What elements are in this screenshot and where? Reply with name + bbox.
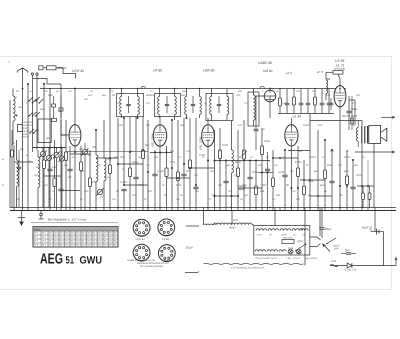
wire v32 [32,98,34,152]
wire h AVC [215,160,271,162]
svg-text:1M: 1M [352,102,355,105]
page edge right [391,57,393,291]
fuse F1 [282,237,294,244]
label UBF80 [203,69,215,73]
labels small scatter [12,90,362,199]
capacitor C20 [254,118,259,150]
svg-text:20p: 20p [353,164,359,167]
wire V5 left [256,96,264,118]
heater box [254,226,310,256]
wire heater drop [203,211,205,225]
inductor heater filaments top [256,229,308,231]
label note box bracket [18,125,23,132]
capacitor C18 [247,161,252,208]
label dropper vertical [370,226,373,233]
wire bottom wavy [204,263,304,264]
svg-text:460kHz: 460kHz [146,94,155,97]
tube V1 UCH42 [61,120,81,146]
label UCH42 top [72,69,84,73]
label lamps [255,257,300,260]
capacitor C31 25uF [319,211,331,238]
svg-text:0,5M: 0,5M [278,171,285,174]
capacitor C15 [181,118,186,208]
wire h 186 [357,185,374,187]
label sockets caption [137,262,169,268]
wire top HT bus [40,88,342,90]
resistor R10 [165,146,168,208]
wire V3 cathode [207,147,209,208]
svg-text:150Ω: 150Ω [295,161,302,164]
svg-text:8μF: 8μF [170,150,175,153]
terminal E [39,211,44,219]
svg-text:20p: 20p [63,164,69,167]
resistor R29 [368,186,371,208]
svg-text:0,5: 0,5 [132,194,136,197]
resistor R22 [296,146,299,208]
wire v310 [309,121,311,208]
svg-text:300Ω: 300Ω [132,161,139,164]
inductor L5 osc [104,120,106,208]
capacitor C29 [329,150,334,208]
svg-text:UL 84: UL 84 [293,115,302,119]
wire ant link [43,68,76,79]
label socket4 [163,259,171,262]
wire V2 cathode [159,146,161,207]
trimmer C7 [81,143,88,208]
svg-text:UABC 80: UABC 80 [258,61,272,65]
resistor R6 [88,150,91,208]
svg-text:10n: 10n [148,190,153,193]
labels component values [45,134,349,187]
svg-text:2pF: 2pF [45,137,51,140]
svg-text:regler: regler [238,187,246,191]
svg-text:0,1μF: 0,1μF [120,181,127,184]
wire v368 [367,160,369,208]
socket V1 UCH42 [133,219,150,236]
label socket2 [162,238,170,241]
svg-text:25: 25 [99,196,103,199]
svg-text:5nF: 5nF [186,170,191,173]
wire v148 [147,120,149,208]
resistor R14 [236,130,239,208]
inductor L12 osc2 [232,121,234,208]
resistor R21 [314,89,317,114]
svg-text:8μF: 8μF [20,148,25,151]
wire v28 [27,84,29,208]
wire midband connectors [14,148,332,197]
svg-text:KW: KW [58,110,63,113]
wire V4 cathode [290,146,292,208]
ground symbol [18,211,25,226]
svg-text:Zt: Zt [7,61,10,64]
svg-text:50k: 50k [145,144,150,147]
wire chassis line upper [10,207,396,209]
svg-text:10k: 10k [276,194,281,197]
svg-text:Bei Netzteilen u. 127 V max: Bei Netzteilen u. 127 V max [48,218,87,222]
capacitor C_t2 [217,96,221,113]
tube V5 magic eye UM80 [264,90,276,102]
wire v375 psu [374,211,376,232]
inductor L2 [17,140,19,208]
svg-text:2,2: 2,2 [271,198,276,201]
svg-text:1M: 1M [290,170,293,173]
inductor heater filaments bottom [255,250,286,252]
wire ant row2 [33,79,61,85]
svg-text:UCH UF/UABC UL/UY: UCH UF/UABC UL/UY [255,257,278,260]
switch S2 wave band [28,112,40,117]
tube V4 UL84 [285,125,298,146]
labels texture scatter [11,90,365,201]
svg-text:300: 300 [16,198,21,201]
capacitor C3 tuning [45,148,52,208]
wire B+ collector [278,113,334,115]
resistor R19 [279,89,282,114]
wire stub r1 [186,225,199,227]
label ant value [57,66,68,70]
svg-text:50p: 50p [180,124,185,127]
svg-text:1M: 1M [48,198,51,201]
resistor R24 fuse [333,68,345,75]
svg-text:5μF: 5μF [345,249,350,252]
capacitor C22 [299,89,304,114]
label UF80 [153,69,162,73]
wire bottom psu [330,265,396,267]
diode D1 [344,263,357,271]
page edge bottom [0,289,392,291]
wire ant down b [36,75,38,98]
terminal socket a2 [36,73,38,75]
wire V1 anode [74,88,76,125]
lamp LP1 [288,249,293,254]
socket V2 UF80 [158,219,175,236]
shield box tuning [38,118,57,142]
wire psu right end [395,258,397,266]
capacitor C6 [67,146,72,208]
capacitor C11 [133,117,138,208]
svg-text:UCH 42: UCH 42 [136,238,146,241]
svg-text:350V: 350V [356,174,362,177]
label output transformer [342,115,358,118]
resistor R3 [53,140,56,208]
resistor R25 [323,140,326,208]
resistor R16 [254,161,257,208]
svg-text:300: 300 [84,98,89,101]
svg-text:100: 100 [116,102,121,105]
svg-text:2 Skl. 7V 0,1A: 2 Skl. 7V 0,1A [285,257,300,260]
svg-text:1MΩ: 1MΩ [264,140,270,143]
resistor R28 [362,186,365,208]
svg-text:50μF: 50μF [362,226,369,230]
label note text block [22,121,34,139]
socket V4 lower [158,245,175,262]
svg-text:50k: 50k [92,146,97,149]
capacitor C27 [329,98,334,110]
inductor L8 IFT2 prim [158,89,160,115]
svg-text:460: 460 [181,94,186,97]
inductor L7 IFT1 sec [138,89,140,119]
wire v124 [123,118,125,185]
wire V6 top [326,72,340,85]
wire V4 anode [290,118,292,125]
resistor R26 [345,150,348,208]
svg-text:UF 80: UF 80 [162,238,170,241]
capacitor C12 [152,150,157,208]
wire V2 anode [159,117,161,125]
wire V5 stem [269,88,271,118]
label UL84 [293,115,302,119]
svg-text:1kV: 1kV [334,248,339,251]
svg-text:10n: 10n [44,90,49,93]
wire v383 psu [383,232,385,266]
svg-text:8μF: 8μF [314,170,319,173]
wire speaker arrow top [381,116,395,118]
wire stub r2 [185,272,199,273]
svg-text:10n: 10n [318,124,323,127]
transformer T3 det box [248,92,259,126]
wire heater box up1 [274,211,276,226]
svg-text:12p: 12p [52,166,57,169]
svg-text:GWU: GWU [80,254,103,266]
resistor R13 [218,128,221,208]
wire speaker top feed [310,114,362,127]
svg-text:Netz-Sich.: Netz-Sich. [283,237,293,240]
svg-text:10 μF: 10 μF [186,246,194,250]
wire v37 [36,98,38,150]
label title 51 [66,254,75,266]
svg-text:der Lötseite gesehen: der Lötseite gesehen [140,265,164,268]
capacitor C25 [327,89,332,114]
resistor R15 volume [242,120,247,208]
svg-text:300: 300 [84,190,89,193]
capacitor C26 [282,150,287,208]
svg-text:300: 300 [298,150,303,153]
inductor L6 IFT1 prim [120,89,122,119]
wire V1 cathode [74,146,76,208]
svg-text:Röhre: Röhre [34,228,41,231]
label UM80 [263,69,273,73]
capacitor C1 ant [39,66,43,70]
wire v10 left [2,100,10,208]
svg-text:2n: 2n [261,128,265,131]
inductor L10 IFT3 prim [185,89,187,119]
svg-text:105V: 105V [310,156,316,159]
svg-text:Type 220V/2: Type 220V/2 [305,257,318,260]
capacitor C19 [265,152,270,208]
label mains note [48,218,87,222]
svg-text:290Ω: 290Ω [370,226,373,233]
svg-text:7pF: 7pF [236,94,241,97]
transformer IFT1 box [117,94,144,117]
svg-text:100: 100 [34,174,39,177]
wire left junctions [16,88,24,117]
terminal socket a1 [31,73,33,75]
capacitor C3b tuning [53,148,60,208]
svg-text:2 m Heizleitung zum Netzanschl: 2 m Heizleitung zum Netzanschl. [230,267,265,270]
svg-text:1nF: 1nF [242,184,247,187]
svg-text:25n: 25n [261,184,267,187]
svg-text:30p: 30p [36,166,41,169]
label UY85 [335,59,345,68]
label Klang [238,184,246,191]
svg-text:2,2: 2,2 [87,154,92,157]
svg-text:460: 460 [238,90,243,93]
svg-text:220V: 220V [296,240,303,243]
svg-text:250V: 250V [343,156,350,159]
inductor L12a [210,89,212,121]
wire ant down a [32,75,34,98]
svg-text:220 pF: 220 pF [57,66,68,70]
wire v318 [317,130,319,208]
svg-text:UY 85: UY 85 [335,59,344,63]
inductor L3 [38,150,40,208]
svg-text:25k: 25k [106,158,112,161]
svg-text:0,3M: 0,3M [303,124,310,127]
inductor L11 IFT3 sec [200,89,202,119]
switch S1 wave band [28,97,43,104]
wire note underline [31,222,118,224]
svg-text:anschl.: anschl. [22,136,30,139]
capacitor C35 [59,96,63,118]
capacitor C3c tuning [58,148,65,208]
transformer T1 laminations [362,126,368,144]
capacitor C24 [320,89,325,114]
inductor L12b [227,89,229,121]
svg-text:0,1μF: 0,1μF [157,170,164,173]
svg-text:10nF: 10nF [252,171,258,174]
lamp LP2 [296,249,301,254]
resistor R11 [176,120,179,208]
capacitor C34 [52,96,56,118]
capacitor C14 ift3 [191,96,195,113]
svg-text:NF-T 1:2000: NF-T 1:2000 [342,115,358,118]
svg-text:UCH: UCH [257,233,262,236]
resistor R17 [260,128,263,208]
svg-text:Sicherung: Sicherung [334,68,345,71]
svg-text:460: 460 [296,198,301,201]
svg-text:0,1: 0,1 [79,148,83,151]
capacitor C36 left [17,150,21,208]
resistor R20 [293,89,296,114]
label socket1 [136,238,146,241]
svg-text:1M: 1M [146,164,149,167]
resistor R4 [64,120,67,208]
capacitor C10 [121,189,126,207]
svg-text:-8V: -8V [238,156,242,159]
switch S2b wave band [29,129,37,134]
capacitor C32 5uF [341,249,356,254]
label title AEG [40,252,63,268]
junction dots crossings [27,83,369,197]
resistor R7 [108,89,111,208]
resistor R30 left [11,130,14,208]
svg-text:100: 100 [186,150,191,153]
tube V6 UY85 [334,86,346,107]
capacitor C23 [306,89,311,114]
svg-text:8μF: 8μF [102,94,107,97]
svg-text:10n: 10n [274,164,279,167]
inductor L16 OT primary [357,121,359,148]
wire V6 cathode [339,107,341,208]
svg-text:UF 80: UF 80 [153,69,162,73]
svg-text:1kΩ: 1kΩ [327,164,332,167]
svg-text:20k: 20k [259,190,265,193]
svg-text:880Ω: 880Ω [229,227,235,230]
wire chassis line lower [10,210,396,212]
svg-text:50μF: 50μF [308,180,314,183]
svg-text:16k: 16k [92,181,97,184]
wire chassis ticks [14,208,375,211]
trimmer C8 [96,188,103,195]
svg-text:AEG: AEG [40,252,63,268]
inductor L14 heater choke [214,219,253,230]
capacitor C9 ift1 [126,96,130,113]
svg-text:20p: 20p [209,170,215,173]
svg-text:10n: 10n [326,94,331,97]
svg-text:0,1: 0,1 [218,184,222,187]
wire trafo drop2 [373,144,375,208]
thermistor NTC [330,260,338,267]
svg-text:460: 460 [80,170,85,173]
svg-text:+: + [381,226,383,230]
svg-text:20: 20 [15,90,19,93]
switch S3 mains [295,244,306,252]
wire v118 [117,118,119,208]
svg-text:2,2: 2,2 [233,174,238,177]
label title GWU [80,254,103,266]
label socket3 [128,259,156,262]
svg-text:50pF: 50pF [235,161,241,164]
socket V3 lower [133,244,150,261]
label LF2 [286,71,292,75]
capacitor C28 [346,96,357,130]
wire speaker arrow bottom [355,151,395,153]
wire v305 psu [304,211,306,266]
resistor R9 [141,117,144,208]
label 01uF1kV [333,245,340,251]
transformer T2 box [206,94,233,121]
antenna [17,68,28,73]
svg-text:300: 300 [154,156,159,159]
resistor R23 [302,160,305,208]
tube V3 UABC80 [202,125,215,147]
svg-text:1kΩ: 1kΩ [170,161,175,164]
svg-text:0,3A: 0,3A [331,260,336,263]
inductor L1 antenna coil [13,89,15,146]
svg-text:8μF: 8μF [344,170,349,173]
table tube voltages [33,227,119,248]
svg-text:LF 2: LF 2 [286,71,292,75]
svg-text:20p: 20p [181,90,187,93]
capacitor C30 [350,160,355,208]
wire heater box up2 [319,211,321,236]
resistor R27 line cord [204,223,216,226]
wire trafo drop1 [361,144,363,208]
svg-text:5nF: 5nF [139,184,144,187]
svg-text:2kΩ: 2kΩ [175,184,181,187]
svg-text:UM 80: UM 80 [263,69,273,73]
svg-text:51: 51 [66,254,75,266]
svg-text:0,5M: 0,5M [222,144,229,147]
svg-text:UABC: UABC [281,233,287,236]
switch S4 [326,238,336,244]
capacitor C5 [58,84,63,208]
svg-text:20pF: 20pF [59,158,66,161]
resistor R1 ant [47,66,57,70]
inductor L15 det [254,89,256,127]
svg-text:300: 300 [356,94,361,97]
label heater caption [230,267,265,270]
label UABC80 top [258,61,272,65]
